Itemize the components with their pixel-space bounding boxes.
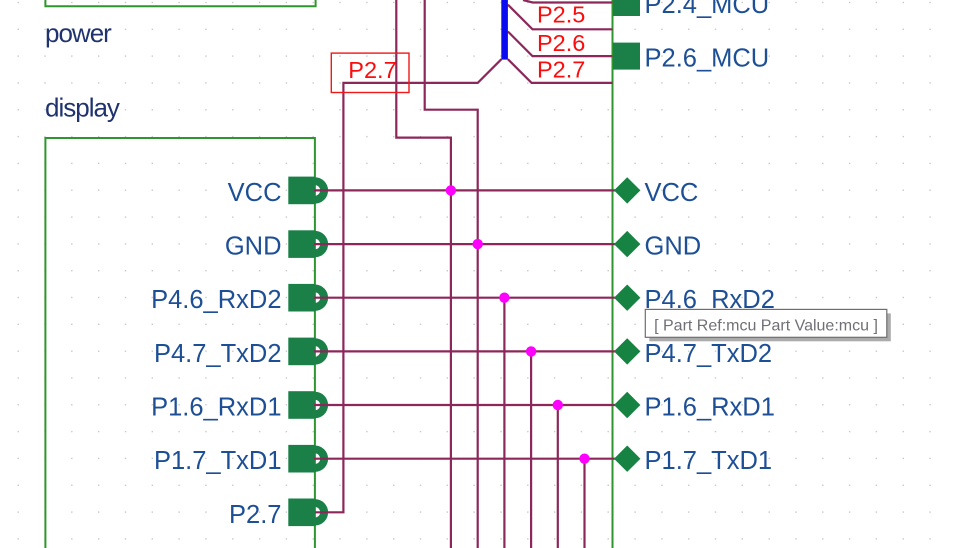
- svg-text:[ Part Ref:mcu Part Value:mcu: [ Part Ref:mcu Part Value:mcu ]: [654, 318, 878, 335]
- terminal diamond P1.6_RxD1 (mcu): [614, 392, 640, 418]
- svg-text:P2.5: P2.5: [537, 1, 585, 27]
- svg-text:P2.7: P2.7: [229, 501, 281, 529]
- svg-text:VCC: VCC: [228, 179, 282, 207]
- terminal diamond P4.7_TxD2 (mcu): [614, 338, 640, 364]
- wire bus entry P2.6 net to P2.6_MCU pin: [508, 32, 613, 57]
- svg-text:P2.4_MCU: P2.4_MCU: [645, 0, 770, 19]
- terminal diamond VCC (mcu): [614, 177, 640, 203]
- svg-text:P1.7_TxD1: P1.7_TxD1: [645, 447, 773, 475]
- tooltip shadow: [649, 313, 891, 341]
- pin P4.6_RxD2 (display): [288, 284, 328, 312]
- subcircuit box: power (bottom edge, top-left): [45, 0, 315, 6]
- net label box P2.7: [331, 53, 409, 92]
- wire vertical drop on P1.7_TxD1 net: [583, 459, 585, 548]
- wire vertical from top to VCC net: [396, 0, 451, 548]
- wire bus entry P2.7 net to mcu: [508, 59, 613, 83]
- wire vertical drop on P4.6_RxD2 net: [503, 298, 505, 548]
- wire bus entry to P2.4_MCU pin: [523, 0, 613, 3]
- junction GND net: [473, 239, 483, 249]
- pin P1.6_RxD1 (display): [288, 391, 328, 419]
- terminal diamond GND (mcu): [614, 231, 640, 257]
- junction P4.7_TxD2 net: [526, 346, 536, 356]
- subcircuit box: mcu (left edge): [612, 0, 614, 548]
- pin VCC (display): [288, 177, 328, 205]
- wire net GND row: [314, 243, 617, 245]
- wire bus entry P2.5 net: [508, 5, 613, 30]
- junction P1.7_TxD1 net: [579, 454, 589, 464]
- svg-text:P4.7_TxD2: P4.7_TxD2: [645, 340, 773, 368]
- tooltip box: [645, 309, 887, 337]
- mcu pin square P2.6_MCU: [613, 43, 640, 70]
- svg-text:P4.7_TxD2: P4.7_TxD2: [154, 340, 282, 368]
- pin GND (display): [288, 230, 328, 258]
- wire net VCC row: [314, 189, 617, 191]
- svg-text:GND: GND: [645, 233, 702, 261]
- junction VCC net: [446, 185, 456, 195]
- wire net P4.6_RxD2 row: [314, 297, 617, 299]
- wire net P2.7 from bus to display pin P2.7: [315, 59, 501, 512]
- svg-text:GND: GND: [225, 233, 282, 261]
- pin P2.7 (display): [288, 499, 328, 527]
- wire vertical from top to GND net: [425, 0, 478, 548]
- svg-text:P4.6_RxD2: P4.6_RxD2: [151, 286, 281, 314]
- svg-text:VCC: VCC: [645, 179, 699, 207]
- subcircuit box: display: [45, 138, 315, 548]
- svg-text:P1.6_RxD1: P1.6_RxD1: [151, 394, 281, 422]
- pin P4.7_TxD2 (display): [288, 338, 328, 366]
- svg-text:P1.6_RxD1: P1.6_RxD1: [645, 394, 775, 422]
- mcu pin square P2.4_MCU: [613, 0, 640, 16]
- wire vertical drop on P4.7_TxD2 net: [530, 351, 532, 548]
- svg-text:P1.7_TxD1: P1.7_TxD1: [154, 447, 282, 475]
- svg-text:P2.7: P2.7: [537, 57, 585, 83]
- wire net P1.6_RxD1 row: [314, 404, 617, 406]
- svg-text:P2.7: P2.7: [348, 57, 396, 83]
- junction P1.6_RxD1 net: [553, 400, 563, 410]
- svg-text:P2.6: P2.6: [537, 30, 585, 56]
- bus (blue): [501, 0, 508, 60]
- wire net P4.7_TxD2 row: [314, 350, 617, 352]
- wire net P1.7_TxD1 row: [314, 458, 617, 460]
- terminal diamond P4.6_RxD2 (mcu): [614, 285, 640, 311]
- wire vertical drop on P1.6_RxD1 net: [557, 405, 559, 548]
- svg-text:P2.6_MCU: P2.6_MCU: [645, 45, 770, 73]
- svg-text:display: display: [45, 92, 120, 122]
- terminal diamond P1.7_TxD1 (mcu): [614, 446, 640, 472]
- junction P4.6_RxD2 net: [499, 293, 509, 303]
- svg-text:power: power: [45, 18, 112, 48]
- pin P1.7_TxD1 (display): [288, 445, 328, 473]
